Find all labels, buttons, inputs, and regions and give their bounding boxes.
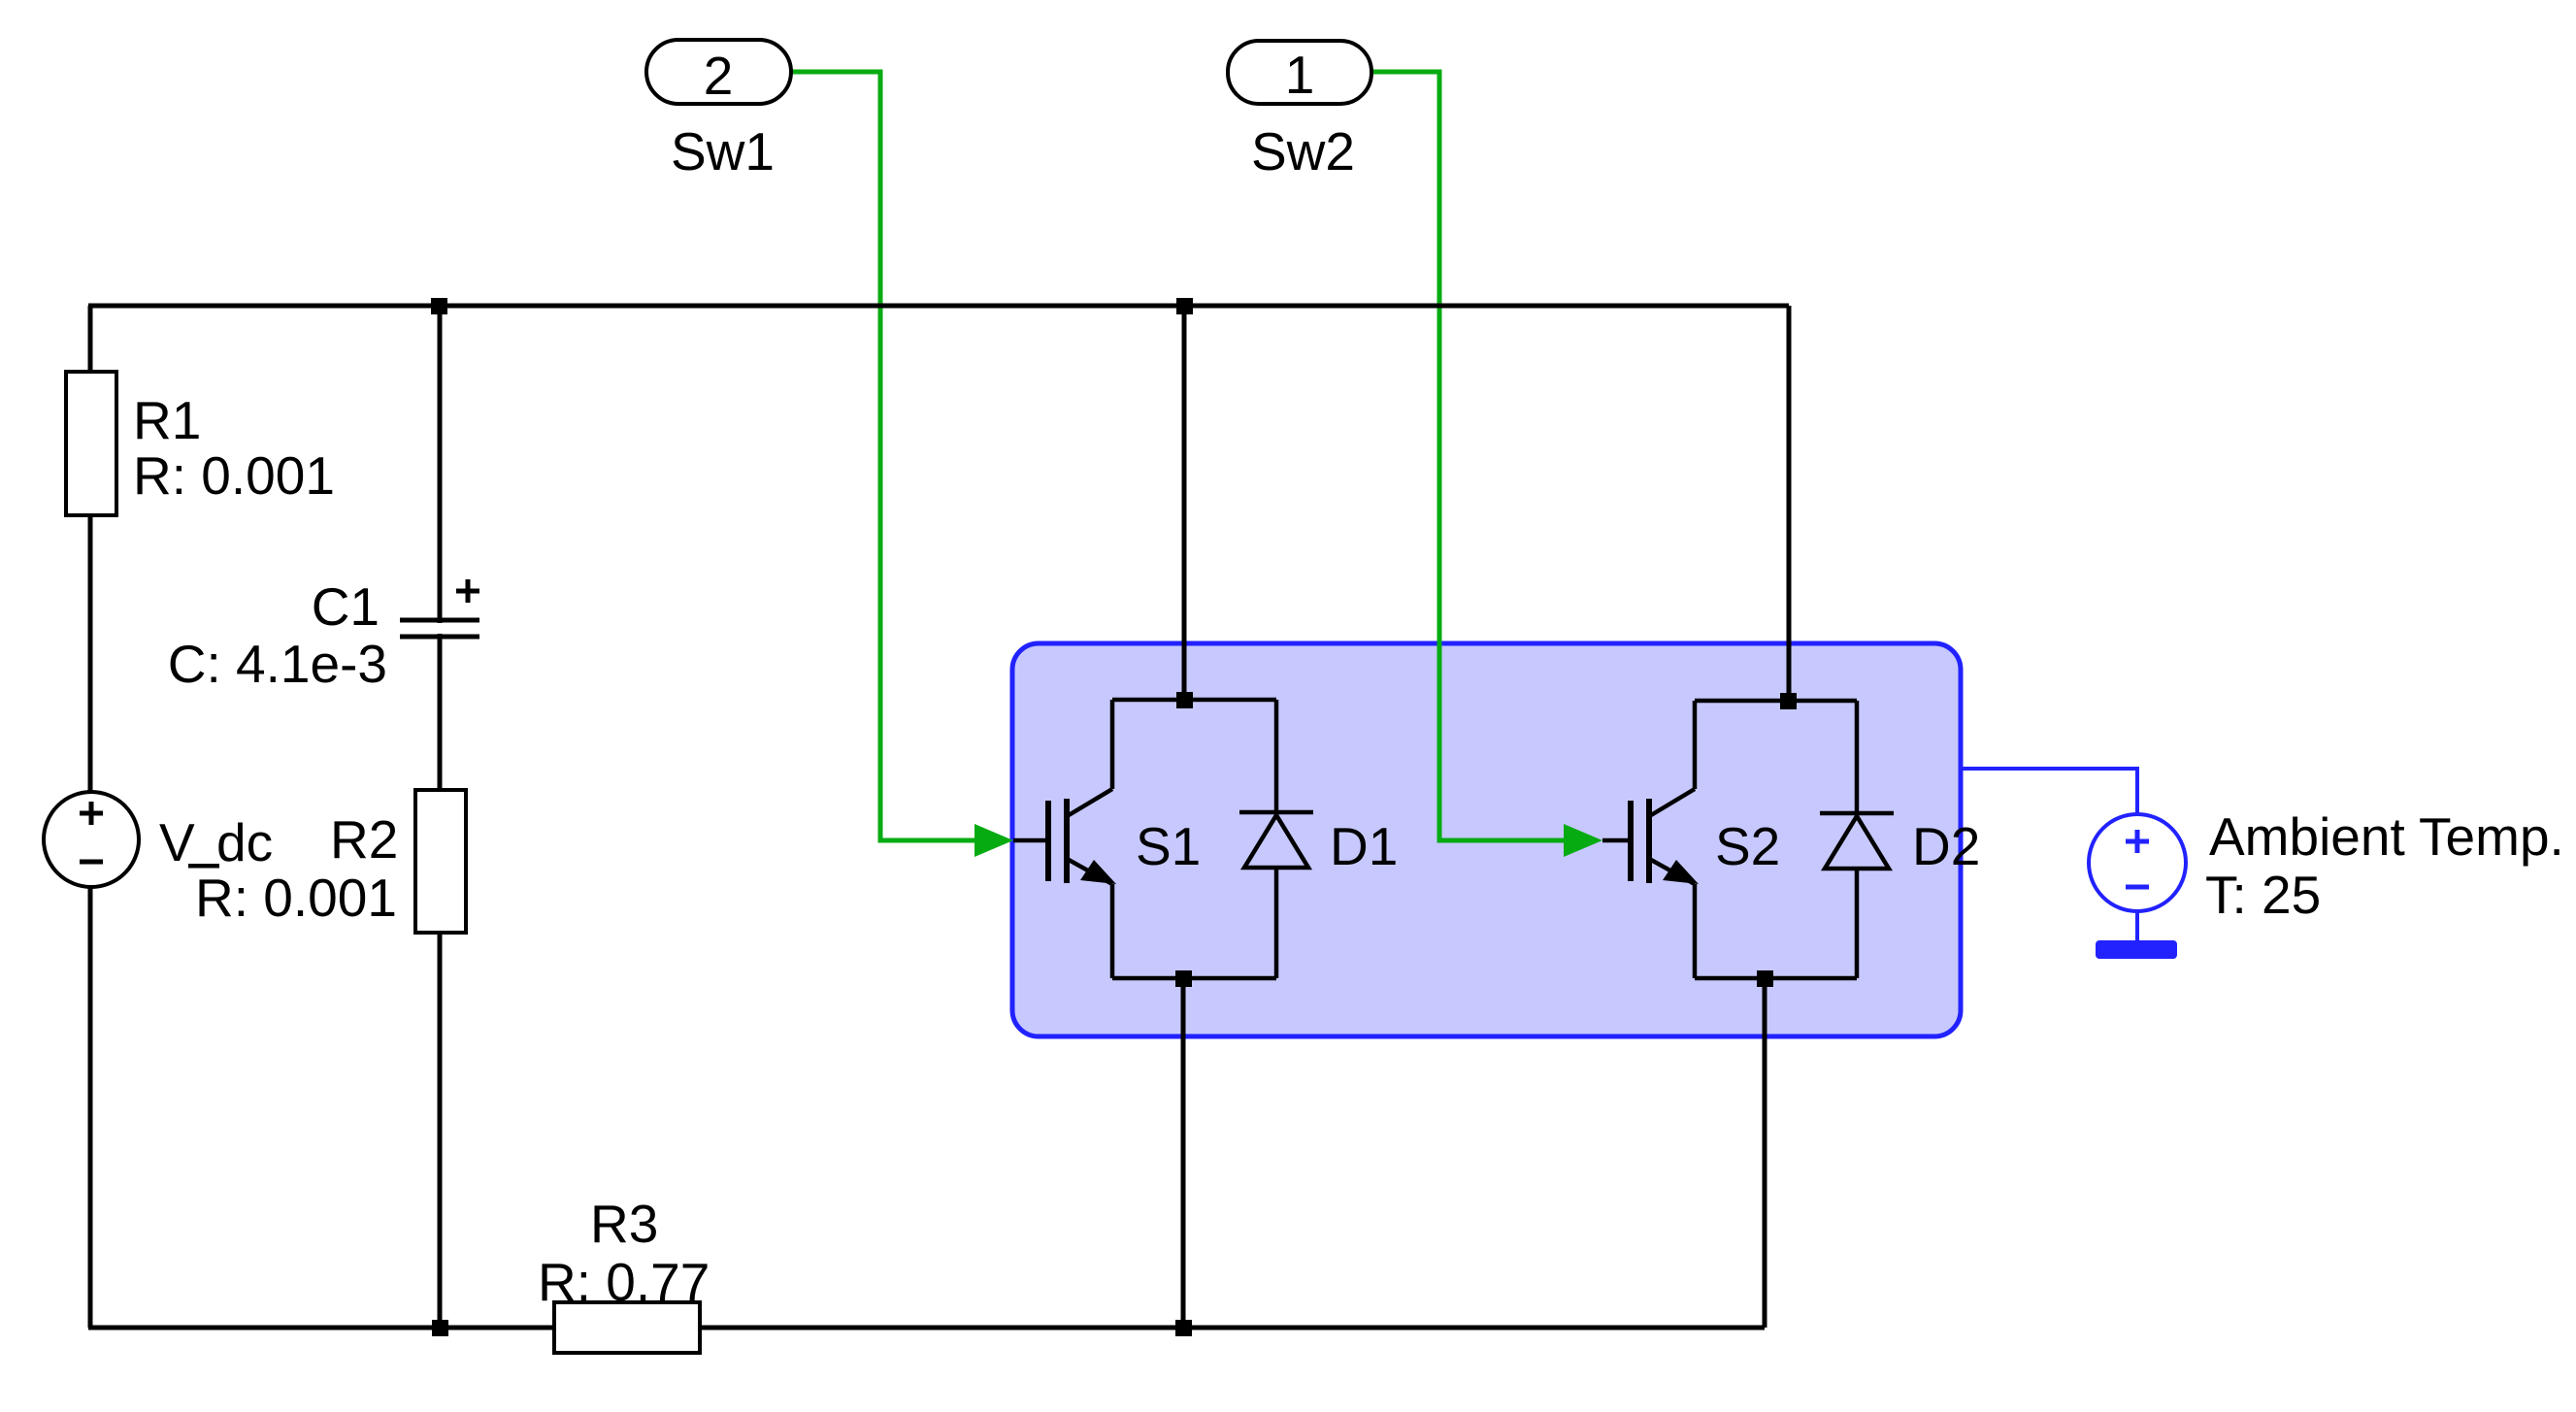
S1 emitter arrow	[1080, 860, 1116, 884]
C1 gap mask	[398, 623, 481, 634]
junction S2 loop bottom	[1757, 970, 1773, 987]
wire S2-D2 loop bottom	[1695, 976, 1857, 981]
svg-text:Sw2: Sw2	[1251, 121, 1355, 181]
junction bottom bus / C1 branch	[432, 1320, 448, 1336]
thermal source Ambient Temp.	[2089, 814, 2186, 911]
C1 polarity plus	[456, 589, 479, 594]
svg-text:R2: R2	[330, 809, 398, 870]
svg-text:D1: D1	[1330, 816, 1398, 876]
module PM1 (blue IGBT half-bridge package)	[1012, 643, 1961, 1036]
junction bottom bus / S1 feed	[1175, 1320, 1192, 1336]
wire left branch vertical (R1 / V_dc)	[88, 306, 93, 1328]
junction S1 loop bottom	[1175, 970, 1192, 987]
svg-text:R3: R3	[590, 1194, 658, 1254]
resistor R3	[554, 1302, 700, 1353]
svg-text:R: 0.001: R: 0.001	[133, 445, 335, 506]
S2 emitter arrow	[1663, 860, 1699, 884]
svg-text:R: 0.77: R: 0.77	[538, 1252, 710, 1312]
svg-text:Ambient Temp.: Ambient Temp.	[2209, 806, 2564, 867]
wire S2 emitter feed	[1763, 978, 1767, 1328]
diode D2	[1820, 701, 1894, 978]
port 1 (Sw2)	[1228, 41, 1371, 104]
wire S1-D1 loop top	[1112, 698, 1276, 703]
junction S1 loop top	[1176, 692, 1193, 708]
junction top bus / S1 feed	[1176, 298, 1193, 314]
junction S2 loop top	[1780, 693, 1797, 709]
arrowhead Sw1 into S1 gate	[974, 824, 1013, 857]
svg-text:1: 1	[1285, 45, 1315, 105]
svg-text:V: V	[159, 812, 195, 872]
svg-text:Sw1: Sw1	[671, 121, 775, 181]
svg-text:C1: C1	[312, 576, 380, 637]
transistor S2 (IGBT)	[1602, 701, 1695, 978]
svg-text:D2: D2	[1912, 816, 1980, 876]
wire Sw1 gate (green)	[791, 72, 978, 840]
wire S1 collector feed	[1182, 306, 1187, 700]
transistor S1 (IGBT)	[1013, 700, 1112, 978]
svg-text:R: 0.001: R: 0.001	[195, 868, 397, 928]
capacitor C1 (plates)	[400, 618, 479, 623]
wire S2 collector feed	[1787, 306, 1792, 701]
svg-text:C: 4.1e-3: C: 4.1e-3	[168, 634, 387, 694]
resistor R2	[415, 790, 466, 933]
voltage source V_dc	[44, 792, 139, 887]
svg-text:T: 25: T: 25	[2205, 865, 2321, 925]
svg-text:R1: R1	[133, 390, 201, 450]
svg-text:dc: dc	[216, 812, 273, 872]
resistor R1	[66, 372, 116, 515]
wire S1-D1 loop bottom	[1112, 976, 1276, 981]
wire C1/R2 branch vertical	[438, 306, 443, 1328]
wire bottom bus	[88, 1326, 1765, 1330]
thermal ground	[2096, 940, 2177, 959]
arrowhead Sw2 into S2 gate	[1564, 824, 1602, 857]
wire Sw2 gate (green)	[1371, 72, 1568, 840]
svg-text:S2: S2	[1715, 816, 1780, 876]
wire thermal source to ground	[2135, 911, 2139, 941]
junction top bus / C1 branch	[431, 298, 447, 314]
wire S1 emitter feed	[1181, 978, 1186, 1328]
wire top bus	[88, 304, 1789, 309]
svg-text:S1: S1	[1136, 816, 1201, 876]
port 2 (Sw1)	[646, 40, 791, 104]
wire thermal (blue) to Ambient	[1961, 769, 2137, 815]
wire S2-D2 loop top	[1695, 699, 1857, 704]
svg-text:2: 2	[704, 46, 734, 106]
diode D1	[1239, 700, 1313, 978]
